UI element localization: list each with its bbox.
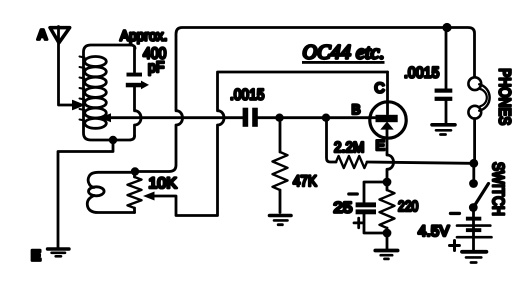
svg-text:OC44 etc.: OC44 etc.: [303, 42, 385, 64]
capacitor C2 .0015 series: [243, 108, 249, 127]
phones jack J1: [468, 77, 481, 90]
label minus battery: [451, 212, 460, 215]
base bar: [376, 115, 398, 122]
transistor U1 OC44: [370, 102, 406, 138]
svg-text:.0015: .0015: [404, 65, 440, 82]
svg-text:4.5V: 4.5V: [418, 223, 450, 240]
capacitor C3 .0015 to ground (right): [445, 28, 448, 89]
tap arrow base (wiper on coil): [100, 113, 112, 122]
capacitor C4 25uF electrolytic: [356, 202, 376, 207]
label minus C4: [349, 192, 358, 195]
emitter wire with hop over 2.2M wire: [387, 129, 394, 183]
coil L2 tickler: [87, 196, 134, 213]
wire tank bottom to earth: [58, 140, 113, 248]
potentiometer 10K: [128, 177, 142, 208]
ground 47K: [270, 214, 292, 218]
wire emitter to bypass cap: [364, 182, 387, 202]
node rail cap junction: [442, 23, 451, 32]
resistor R 220: [386, 182, 389, 190]
ground battery: [462, 250, 486, 254]
node 2.2M junction: [322, 114, 330, 122]
wire phones to switch: [472, 119, 476, 183]
top rail: [135, 28, 475, 172]
svg-text:2.2M: 2.2M: [334, 140, 365, 156]
resistor 47K: [279, 118, 282, 152]
svg-text:.0015: .0015: [230, 87, 265, 104]
label plus battery: [450, 241, 460, 251]
wire emitter node to switch rail: [367, 162, 470, 163]
svg-text:E: E: [31, 248, 41, 265]
ground C3: [432, 123, 455, 127]
label plus C4: [354, 218, 364, 228]
coil L1 tank winding: [84, 45, 136, 140]
svg-text:PHONES: PHONES: [496, 68, 513, 125]
node 220 bottom: [383, 229, 392, 238]
svg-text:10K: 10K: [149, 175, 178, 192]
svg-text:220: 220: [398, 199, 419, 215]
switch S1: [469, 179, 478, 188]
resistor 2.2M: [327, 118, 337, 162]
node 10K top: [131, 167, 139, 175]
wire antenna feed: [59, 27, 73, 106]
tap arrow antenna: [73, 100, 85, 109]
svg-text:pF: pF: [148, 59, 165, 76]
wire base line left: [109, 116, 243, 119]
antenna A: [50, 28, 70, 43]
ground E: [48, 247, 70, 250]
battery B1 4.5V: [472, 208, 475, 250]
wire base line right: [258, 116, 377, 119]
svg-text:47K: 47K: [293, 173, 317, 190]
svg-text:SWITCH: SWITCH: [489, 162, 506, 216]
svg-text:25: 25: [334, 200, 353, 217]
collector wire into bar: [386, 72, 389, 114]
wire to ground: [386, 233, 389, 249]
svg-text:E: E: [376, 137, 386, 153]
wiper arrow 10K: [143, 192, 155, 201]
node tank bottom: [109, 136, 117, 144]
svg-text:C: C: [375, 79, 385, 95]
collector box wire: [154, 72, 388, 216]
node 47K junction: [275, 114, 283, 122]
svg-text:B: B: [352, 102, 361, 117]
node emitter junction: [383, 178, 392, 187]
emitter arrow (PNP): [380, 122, 393, 130]
node emitter rail junction: [469, 159, 478, 168]
ground 220: [375, 249, 397, 253]
svg-text:Approx.: Approx.: [120, 28, 168, 44]
variable capacitor C1 400pF: [133, 48, 136, 72]
svg-text:A: A: [37, 28, 48, 44]
wire C1 down with hop over base wire: [135, 88, 142, 137]
